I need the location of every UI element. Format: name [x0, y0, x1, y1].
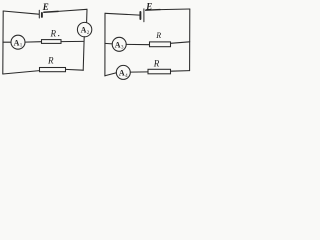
wire: right circuit, battery to top-right corner [146, 9, 160, 12]
svg-text:R: R [153, 59, 160, 69]
ammeter A3 circle [112, 37, 126, 51]
wire: right circuit bottom, corner to ammeter A4 [105, 73, 117, 76]
battery E short plate [41, 13, 43, 17]
wire: left circuit bottom, corner to resistor [3, 71, 40, 74]
wire: middle resistor to right vertical [61, 40, 83, 42]
wire: right circuit, right vertical [189, 9, 191, 71]
noise dot after middle R [58, 35, 59, 36]
battery E long plate (right circuit) [143, 9, 145, 22]
wire: stub to ammeter A3 [105, 42, 112, 45]
wire: left circuit, top-left to battery [3, 11, 39, 14]
resistor R bottom branch body (right circuit) [148, 69, 171, 74]
battery E long plate [38, 10, 40, 18]
resistor R middle branch body [42, 40, 62, 44]
wire: right circuit, left vertical [104, 13, 106, 76]
ammeter A1 circle [11, 35, 25, 49]
svg-text:R: R [47, 55, 54, 65]
ammeter A4 circle [116, 65, 130, 79]
svg-text:A: A [115, 40, 121, 49]
wire: top branch resistor to right vertical [171, 42, 190, 44]
resistor R bottom branch body [40, 68, 66, 72]
svg-text:A: A [14, 38, 20, 47]
wire: A3 to resistor R (top branch) [126, 43, 149, 45]
svg-text:R: R [50, 28, 57, 38]
wire: left circuit, left vertical [2, 11, 4, 74]
battery E short plate (right circuit) [139, 12, 141, 19]
wire: A2 down right vertical to bottom corner [83, 37, 84, 71]
svg-text:A: A [81, 26, 87, 35]
resistor R top branch body (right circuit) [150, 42, 171, 47]
wire: bottom resistor to bottom-right corner [66, 68, 84, 71]
svg-text:A: A [119, 69, 125, 78]
wire: top-right corner down to ammeter A2 [86, 9, 88, 22]
wire: left circuit, stub to ammeter A1 [3, 41, 11, 43]
wire: right circuit, top-left to battery [105, 13, 140, 15]
svg-text:E: E [42, 2, 49, 12]
svg-text:E: E [145, 1, 152, 11]
wire: bottom branch resistor to right vertical [171, 70, 190, 73]
svg-text:R: R [155, 31, 161, 40]
wire: left circuit, battery to top-right corner [44, 10, 58, 13]
wire: A4 to resistor R (bottom branch) [130, 71, 148, 73]
ammeter A2 circle [77, 22, 91, 36]
wire: A1 to resistor R (middle branch) [25, 41, 42, 43]
